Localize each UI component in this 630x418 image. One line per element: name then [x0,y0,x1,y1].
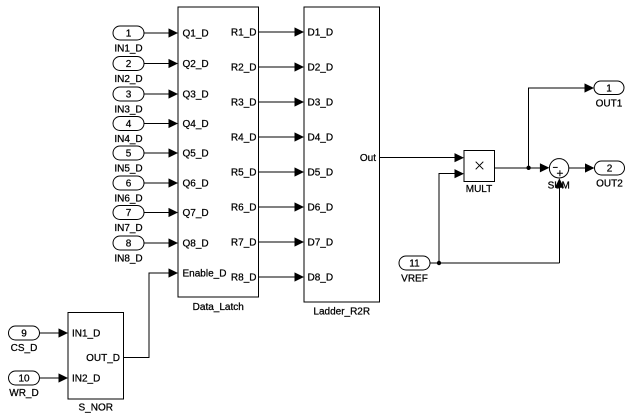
svg-text:Q3_D: Q3_D [183,89,209,100]
svg-text:10: 10 [18,374,30,385]
svg-text:R2_D: R2_D [231,62,257,73]
wire R6_D to D6_D [259,202,305,211]
wire R4_D to D4_D [259,132,305,141]
svg-text:Out: Out [360,153,376,164]
input port 2 IN2_D [113,57,144,86]
wire port 6 to Q6_D [144,178,178,187]
input port 5 IN5_D [113,146,144,175]
svg-text:1: 1 [126,29,132,40]
svg-text:1: 1 [606,84,612,95]
wire port 5 to Q5_D [144,148,178,157]
input port 3 IN3_D [113,87,144,116]
svg-text:Q8_D: Q8_D [183,238,209,249]
wire port 7 to Q7_D [144,208,178,217]
svg-text:IN6_D: IN6_D [114,194,142,205]
svg-text:R4_D: R4_D [231,132,257,143]
svg-text:D6_D: D6_D [308,202,334,213]
input port 10 WR_D [9,371,40,399]
wire port 3 to Q3_D [144,89,178,98]
wire VREF horizontal run [430,262,559,264]
input port 1 IN1_D [113,26,144,55]
svg-text:D7_D: D7_D [308,237,334,248]
svg-text:R7_D: R7_D [231,237,257,248]
svg-text:CS_D: CS_D [11,343,38,354]
svg-text:MULT: MULT [466,184,492,195]
svg-text:Q1_D: Q1_D [183,28,209,39]
input port 11 VREF [399,256,430,285]
svg-text:Enable_D: Enable_D [183,268,227,279]
input port 6 IN6_D [113,176,144,205]
input port 7 IN7_D [113,206,144,235]
svg-text:IN8_D: IN8_D [114,254,142,265]
svg-text:S_NOR: S_NOR [79,403,113,414]
svg-text:D3_D: D3_D [308,97,334,108]
block MULT U4 [464,151,495,196]
wire R5_D to D5_D [259,167,305,176]
svg-text:R1_D: R1_D [231,27,257,38]
svg-text:IN1_D: IN1_D [114,44,142,55]
svg-text:Q7_D: Q7_D [183,208,209,219]
node junction at VREF branch [437,261,441,265]
wire SUM output to OUT2 [569,163,595,172]
wire port 10 to IN2_D of S_NOR [40,373,69,382]
input port 9 CS_D [9,326,40,354]
block Data_Latch U1 [178,7,259,313]
svg-text:Ladder_R2R: Ladder_R2R [313,307,370,318]
output port 2 OUT2 [595,161,625,190]
svg-text:2: 2 [607,164,613,175]
svg-text:IN3_D: IN3_D [114,105,142,116]
svg-text:IN7_D: IN7_D [114,223,142,234]
wire port 8 to Q8_D [144,238,178,247]
svg-text:9: 9 [21,329,27,340]
input port 4 IN4_D [113,117,144,146]
wire R7_D to D7_D [259,237,305,246]
wire VREF branch up to MULT input 2 [439,169,464,263]
output port 1 OUT1 [594,81,624,110]
wire OUT_D to Enable_D [124,268,179,357]
svg-text:VREF: VREF [401,274,428,285]
svg-text:3: 3 [126,90,132,101]
wire port 2 to Q2_D [144,59,178,68]
svg-text:D1_D: D1_D [308,27,334,38]
svg-text:R5_D: R5_D [231,167,257,178]
wire VREF up to SUM bottom input [555,178,564,263]
svg-text:D2_D: D2_D [308,62,334,73]
wire R2_D to D2_D [259,62,305,71]
wire branch to OUT1 [529,83,594,167]
svg-text:IN1_D: IN1_D [72,328,100,339]
svg-text:IN5_D: IN5_D [114,164,142,175]
node junction at OUT1 branch [526,166,530,170]
svg-text:2: 2 [126,59,132,70]
svg-text:Data_Latch: Data_Latch [193,302,244,313]
wire port 1 to Q1_D [144,28,178,37]
svg-text:4: 4 [126,119,132,130]
wire R8_D to D8_D [259,272,305,281]
svg-text:D8_D: D8_D [308,272,334,283]
sum block SUM U5 [548,159,570,192]
svg-text:8: 8 [126,239,132,250]
svg-text:OUT1: OUT1 [596,99,623,110]
svg-text:OUT_D: OUT_D [86,353,120,364]
block Ladder_R2R U2 [304,7,380,318]
svg-text:WR_D: WR_D [9,388,38,399]
block S_NOR U3 [68,313,124,414]
svg-text:R3_D: R3_D [231,97,257,108]
input port 8 IN8_D [113,236,144,265]
svg-text:5: 5 [126,149,132,160]
svg-text:D4_D: D4_D [308,132,334,143]
svg-text:IN4_D: IN4_D [114,134,142,145]
svg-text:7: 7 [126,208,132,219]
svg-text:Q5_D: Q5_D [183,148,209,159]
svg-text:OUT2: OUT2 [596,179,623,190]
wire port 9 to IN1_D of S_NOR [40,328,69,337]
svg-text:Q4_D: Q4_D [183,119,209,130]
svg-text:SUM: SUM [548,181,570,192]
svg-text:6: 6 [126,179,132,190]
svg-text:IN2_D: IN2_D [72,373,100,384]
svg-text:Q2_D: Q2_D [183,59,209,70]
svg-text:IN2_D: IN2_D [114,74,142,85]
wire R1_D to D1_D [259,27,305,36]
svg-text:R6_D: R6_D [231,202,257,213]
wire Out to MULT input 1 [380,153,465,162]
svg-text:D5_D: D5_D [308,167,334,178]
wire port 4 to Q4_D [144,119,178,128]
svg-text:11: 11 [409,259,420,270]
wire R3_D to D3_D [259,97,305,106]
svg-text:Q6_D: Q6_D [183,178,209,189]
svg-text:R8_D: R8_D [231,272,257,283]
wire MULT output to SUM [495,163,550,172]
